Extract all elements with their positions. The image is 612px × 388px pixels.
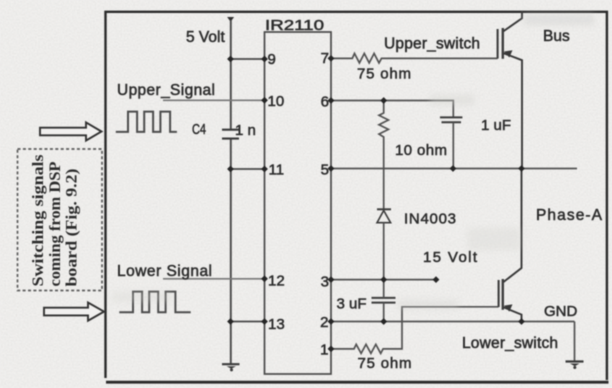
svg-text:1 n: 1 n <box>235 122 256 139</box>
svg-text:2: 2 <box>320 314 328 331</box>
svg-text:7: 7 <box>321 50 329 67</box>
svg-text:10: 10 <box>268 93 285 110</box>
svg-text:6: 6 <box>321 94 329 111</box>
svg-text:Phase-A: Phase-A <box>536 207 603 224</box>
svg-text:Upper_Signal: Upper_Signal <box>117 82 215 99</box>
svg-text:Lower_switch: Lower_switch <box>462 335 558 352</box>
svg-text:3 uF: 3 uF <box>337 296 367 313</box>
svg-text:3: 3 <box>321 274 329 291</box>
svg-text:coming from DSP: coming from DSP <box>46 161 64 286</box>
svg-text:Bus: Bus <box>543 28 570 45</box>
svg-text:12: 12 <box>268 273 285 290</box>
svg-text:75 ohm: 75 ohm <box>357 66 411 83</box>
svg-text:5 Volt: 5 Volt <box>186 29 225 46</box>
svg-text:GND: GND <box>544 303 578 320</box>
svg-text:IR2110: IR2110 <box>265 17 324 34</box>
svg-text:Upper_switch: Upper_switch <box>384 36 480 53</box>
svg-text:1: 1 <box>320 342 328 359</box>
svg-text:11: 11 <box>269 162 285 179</box>
svg-text:Lower Signal: Lower Signal <box>117 263 212 280</box>
svg-text:5: 5 <box>321 162 329 179</box>
svg-text:board (Fig. 9.2): board (Fig. 9.2) <box>63 169 81 287</box>
svg-text:Switching signals: Switching signals <box>29 155 47 287</box>
svg-text:IN4003: IN4003 <box>404 211 456 228</box>
svg-text:13: 13 <box>268 316 285 333</box>
svg-text:1 uF: 1 uF <box>481 117 511 134</box>
svg-text:75 ohm: 75 ohm <box>358 355 412 372</box>
svg-text:9: 9 <box>268 51 276 68</box>
svg-text:C4: C4 <box>192 122 206 138</box>
svg-text:10 ohm: 10 ohm <box>395 142 447 159</box>
svg-text:15 Volt: 15 Volt <box>423 249 478 266</box>
